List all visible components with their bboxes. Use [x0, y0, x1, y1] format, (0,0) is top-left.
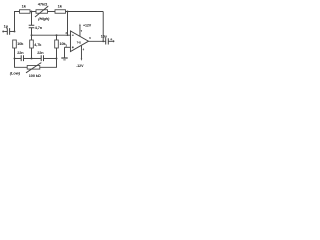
wire R4 to node F — [31, 48, 33, 58]
svg-text:4,7k: 4,7k — [34, 43, 42, 47]
potentiometer P1 47k — [36, 10, 48, 14]
wire R5 to node H — [56, 48, 58, 58]
svg-text:-12V: -12V — [76, 64, 84, 68]
node I junction — [102, 40, 104, 42]
wire C2 down to R4 — [31, 28, 33, 40]
svg-text:1k: 1k — [22, 4, 27, 9]
resistor R2 1k — [55, 10, 66, 14]
wire input to C1 — [4, 30, 7, 32]
svg-text:22n: 22n — [37, 51, 44, 55]
svg-text:100 kΩ: 100 kΩ — [29, 74, 41, 78]
wire P1 to R2 — [48, 11, 56, 13]
svg-text:4: 4 — [83, 47, 85, 51]
wire C4 to node H — [44, 57, 57, 59]
svg-text:22n: 22n — [17, 51, 24, 55]
svg-text:4,7n: 4,7n — [35, 26, 43, 30]
wire C5 to output terminal — [109, 40, 113, 42]
svg-text:1µ: 1µ — [4, 23, 9, 28]
wire feedback right rail down — [102, 12, 104, 42]
node A junction — [14, 31, 16, 33]
input terminal — [2, 31, 4, 33]
wire node E to R5 — [56, 35, 58, 40]
node F junction — [31, 58, 33, 60]
capacitor C3 22n — [21, 55, 23, 61]
output terminal — [112, 40, 114, 42]
+12V stub — [79, 26, 81, 37]
svg-text:741: 741 — [77, 41, 82, 45]
capacitor C2 4,7n — [29, 25, 35, 27]
wire left rail up to top — [15, 12, 20, 32]
wire node G to C3 — [15, 57, 22, 59]
wire to ground — [64, 47, 66, 57]
wire node G to bottom corner — [15, 58, 28, 67]
wire node C down — [67, 12, 69, 36]
non-inverting input wire — [65, 46, 71, 48]
svg-text:6: 6 — [89, 36, 91, 40]
node G junction — [14, 58, 16, 60]
plus sign — [72, 46, 74, 48]
node D junction — [31, 34, 33, 36]
minus sign — [72, 34, 74, 36]
svg-text:10k: 10k — [17, 42, 24, 46]
wire node B down — [31, 12, 33, 26]
svg-text:(High): (High) — [38, 16, 50, 21]
wire node H down to pot — [40, 58, 57, 67]
plus mark C5 — [110, 38, 112, 40]
node B junction — [31, 11, 33, 13]
node C2 junction — [67, 34, 69, 36]
wire R3 to node G — [14, 48, 16, 58]
svg-text:(Low): (Low) — [10, 71, 21, 76]
potentiometer P2 100k — [27, 66, 40, 70]
output wire — [89, 40, 106, 42]
wire R1 to P1 — [30, 11, 36, 13]
svg-text:1k: 1k — [58, 4, 63, 9]
op-amp IC1 741 — [70, 31, 88, 52]
capacitor C1 1u — [7, 28, 9, 35]
node H junction — [56, 58, 58, 60]
svg-text:10µ: 10µ — [101, 34, 107, 38]
wire C1 to node A — [10, 30, 15, 32]
svg-text:47kΩ: 47kΩ — [38, 2, 48, 7]
resistor R3 10k — [13, 40, 17, 48]
svg-text:7: 7 — [81, 29, 83, 33]
-12V stub — [80, 46, 82, 59]
inverting input wire — [32, 34, 71, 36]
resistor R1 1k — [20, 10, 31, 14]
capacitor C5 10u — [106, 38, 109, 44]
resistor R4 4,7k — [30, 40, 34, 48]
svg-text:+12V: +12V — [83, 23, 92, 27]
resistor R5 10k — [55, 40, 59, 48]
wire C3 to node F — [24, 57, 32, 59]
node C junction — [67, 11, 69, 13]
ground — [61, 57, 67, 59]
wire R2 to corner — [66, 11, 104, 13]
wire node F to C4 — [32, 57, 42, 59]
capacitor C4 22n — [41, 55, 43, 61]
node E junction — [56, 34, 58, 36]
